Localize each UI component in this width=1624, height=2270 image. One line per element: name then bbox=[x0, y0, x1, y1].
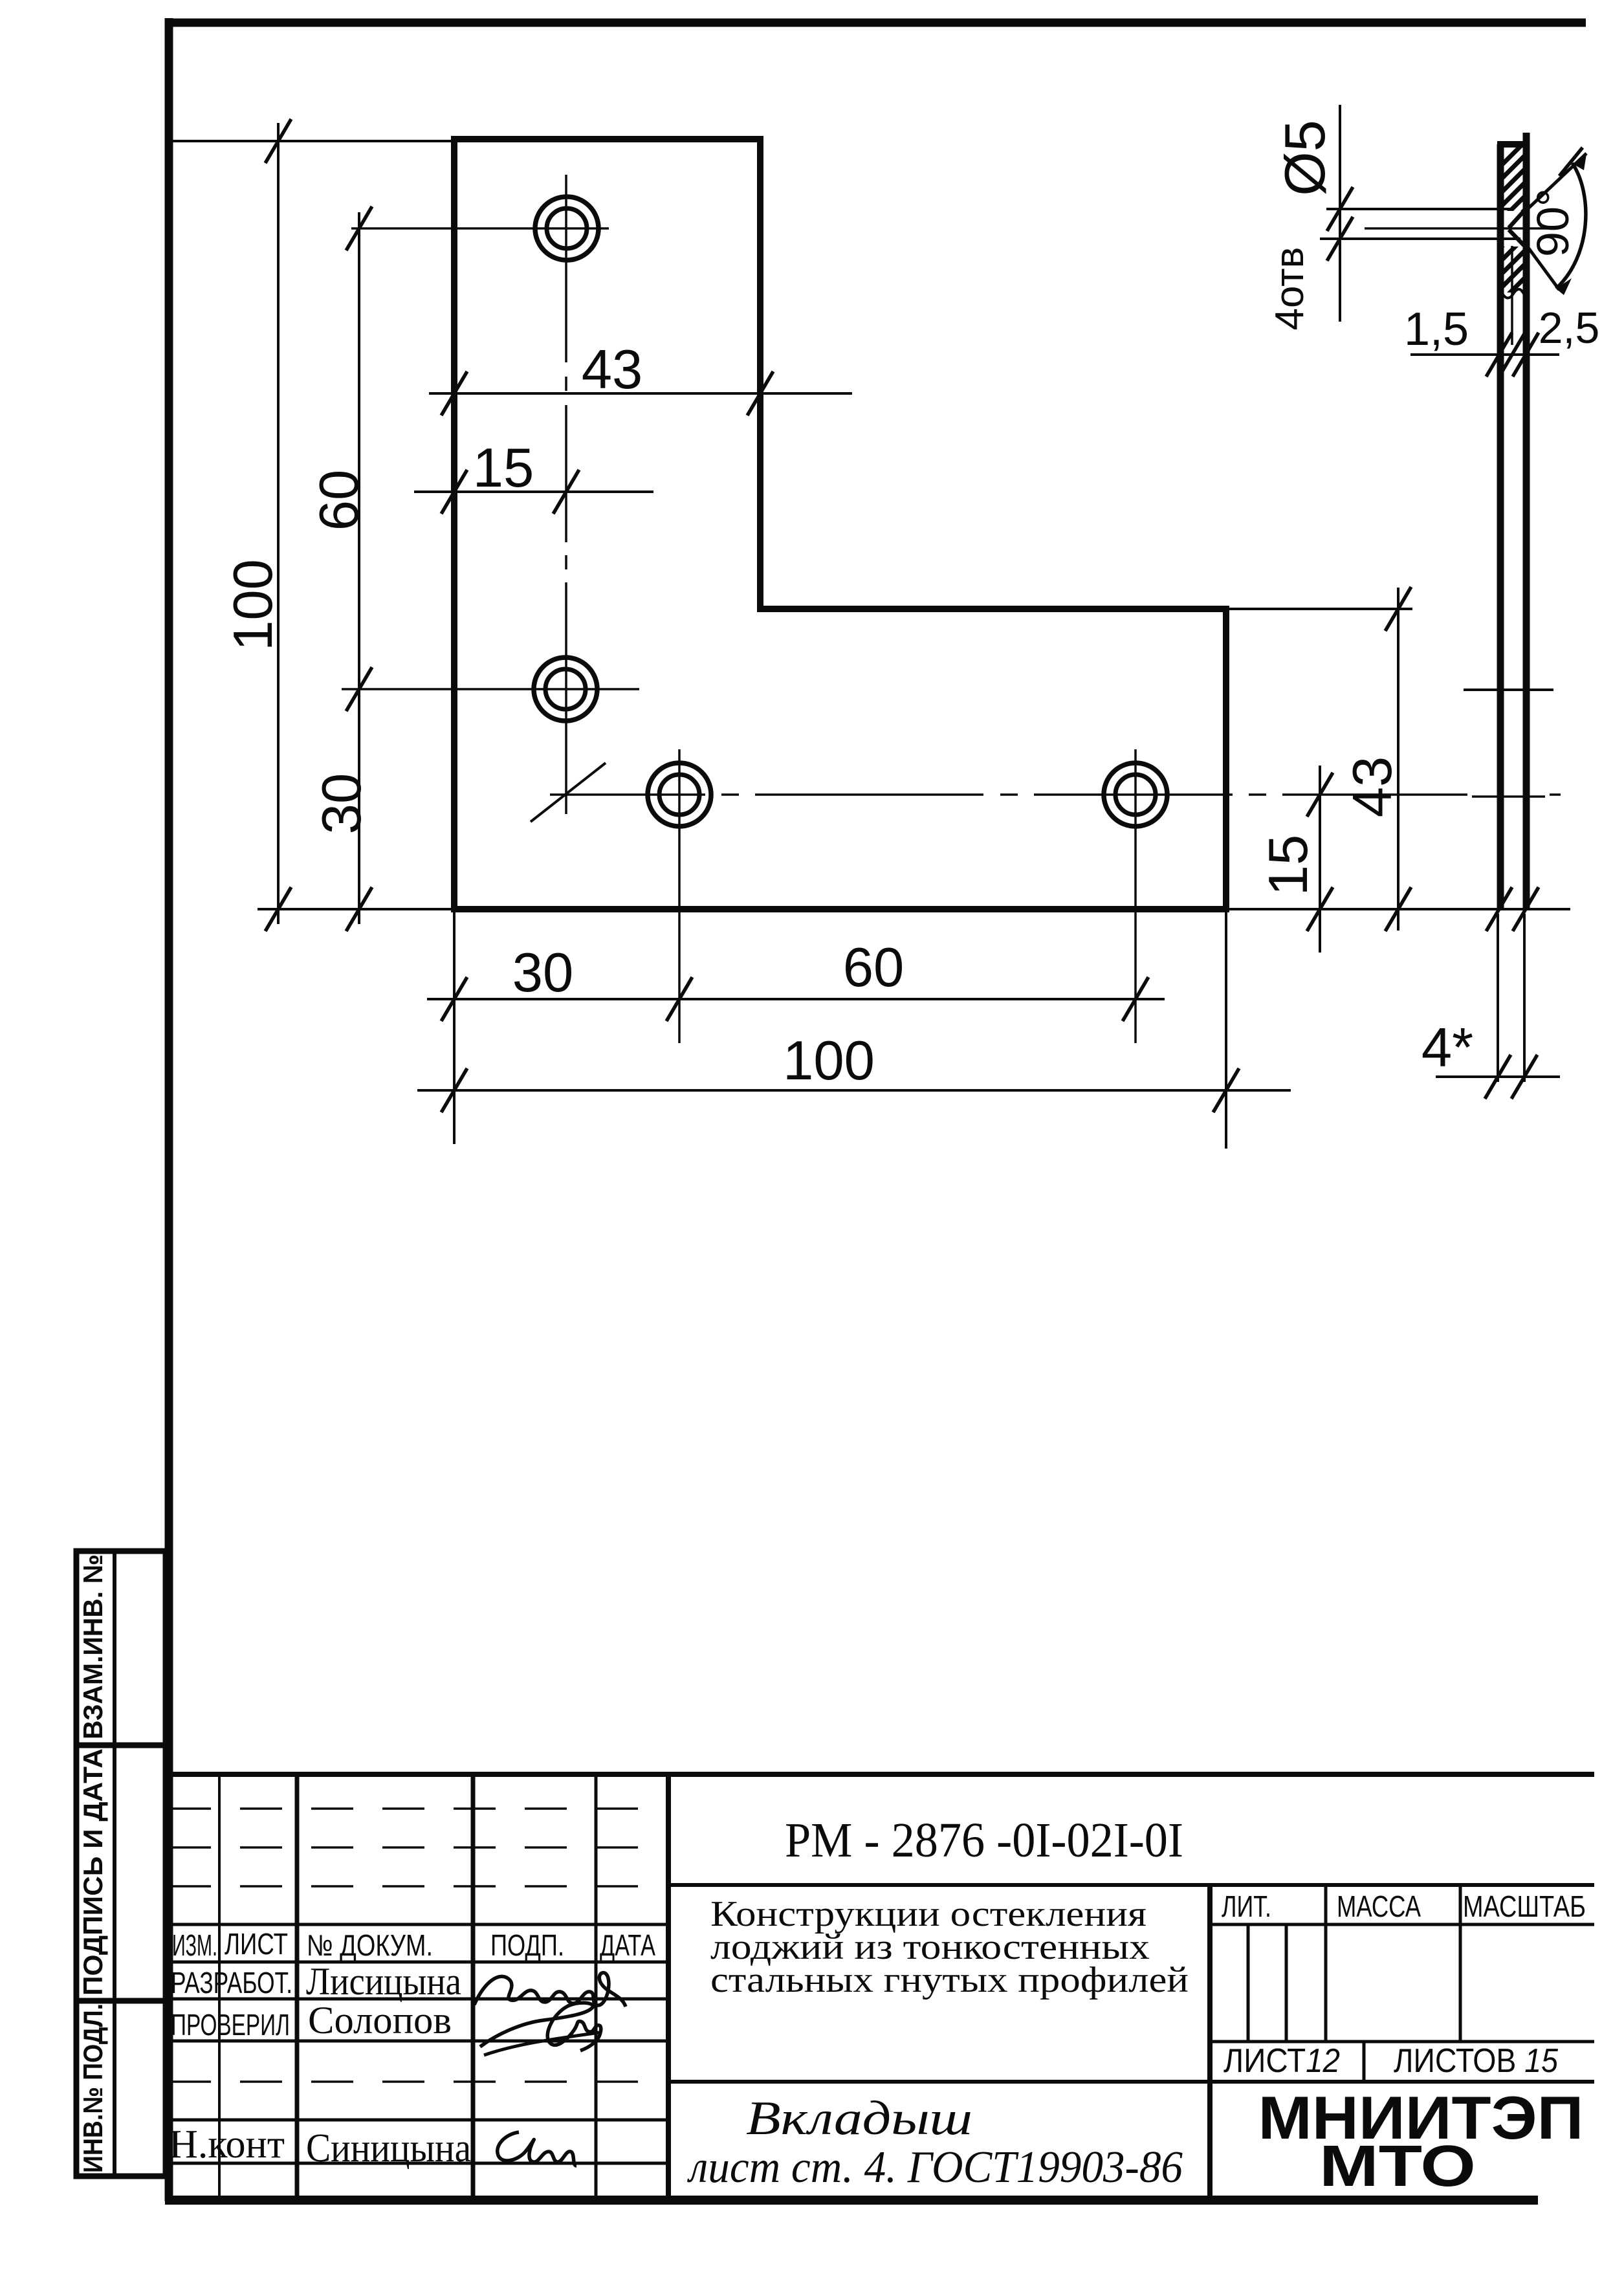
svg-text:МАССА: МАССА bbox=[1337, 1890, 1421, 1923]
strip label divider 1 bbox=[113, 1551, 116, 1745]
dim 90deg: lower leg bbox=[1527, 246, 1559, 290]
extension line bottom edge long right bbox=[1229, 908, 1570, 910]
hole H3 outer bbox=[648, 763, 711, 826]
dim 90deg: upper leg bbox=[1528, 153, 1586, 208]
svg-text:РАЗРАБОТ.: РАЗРАБОТ. bbox=[171, 1966, 292, 2000]
svg-text:43: 43 bbox=[582, 339, 643, 401]
plate outline bbox=[454, 139, 1226, 909]
svg-text:15: 15 bbox=[473, 437, 534, 499]
tb row prover bottom bbox=[169, 2040, 668, 2043]
section inner edge line bbox=[1511, 246, 1513, 345]
dim 30/60 bottom: line bbox=[427, 998, 1165, 1000]
svg-text:лист ст. 4. ГОСТ19903-86: лист ст. 4. ГОСТ19903-86 bbox=[686, 2143, 1183, 2192]
svg-text:ПОДП.: ПОДП. bbox=[490, 1928, 564, 1962]
svg-text:30: 30 bbox=[311, 773, 373, 835]
strip label divider 3 bbox=[113, 2001, 116, 2176]
dim 15 right: line bbox=[1319, 766, 1321, 953]
dim 100 bottom: line bbox=[417, 1089, 1291, 1092]
hole H4 outer bbox=[1104, 763, 1167, 826]
strip cell vzam bbox=[76, 1551, 166, 1745]
hole H4 inner bbox=[1115, 775, 1156, 815]
section hole2 mark line bbox=[1464, 689, 1553, 691]
dim 100 left: line bbox=[277, 123, 280, 924]
svg-text:30: 30 bbox=[512, 942, 574, 1004]
dim 100 left: extension bottom bbox=[258, 908, 453, 910]
dim d5: extension bottom bbox=[1320, 237, 1520, 240]
svg-text:РМ - 2876 -0I-02I-0I: РМ - 2876 -0I-02I-0I bbox=[785, 1813, 1183, 1868]
extension line bottom left corner bbox=[453, 912, 455, 1144]
svg-text:ЛИТ.: ЛИТ. bbox=[1222, 1890, 1271, 1923]
TITLE BLOCK bbox=[165, 1774, 1594, 2200]
section bar right line bbox=[1523, 133, 1530, 909]
svg-text:ИНВ.№ ПОДЛ.: ИНВ.№ ПОДЛ. bbox=[78, 2003, 108, 2173]
svg-text:4*: 4* bbox=[1421, 1017, 1473, 1079]
svg-text:ЛИСТ12: ЛИСТ12 bbox=[1223, 2042, 1340, 2080]
svg-text:43: 43 bbox=[1342, 756, 1403, 818]
svg-text:1,5: 1,5 bbox=[1404, 303, 1469, 355]
svg-text:4отв: 4отв bbox=[1267, 247, 1312, 331]
tb lit subcol 1 bbox=[1247, 1924, 1250, 2042]
strip label divider 2 bbox=[113, 1745, 116, 2001]
dim 4*: extension left bbox=[1497, 914, 1499, 1082]
countersink funnel lower line bbox=[1509, 230, 1527, 248]
signature sin bbox=[498, 2132, 576, 2166]
tb list row bottom bbox=[668, 2080, 1594, 2084]
countersink funnel upper line bbox=[1509, 208, 1527, 228]
tb row header bottom bbox=[169, 1961, 668, 1964]
centerline column holes 1-2 bbox=[565, 175, 567, 814]
strip cell podpis bbox=[76, 1745, 166, 2001]
tb row razrab bottom bbox=[169, 1998, 668, 2001]
svg-text:60: 60 bbox=[309, 470, 370, 531]
dim 1,5 2,5: line bbox=[1410, 353, 1559, 356]
tb col masshtab bbox=[1459, 1885, 1462, 2042]
svg-text:МАСШТАБ: МАСШТАБ bbox=[1463, 1890, 1586, 1923]
centerline hole 2 row bbox=[342, 688, 639, 690]
sheet frame left border bbox=[165, 18, 173, 2201]
svg-text:Солопов: Солопов bbox=[308, 1999, 452, 2042]
dim d5: line bbox=[1339, 105, 1341, 322]
tb row dashed 2 bbox=[169, 1846, 668, 1849]
tb col izm bbox=[218, 1774, 221, 2200]
svg-text:90°: 90° bbox=[1528, 188, 1578, 257]
dimension ticks bbox=[265, 119, 1583, 1112]
centerline holes 3-4 row long bbox=[550, 795, 1561, 797]
hole H2 inner bbox=[545, 669, 586, 709]
svg-text:ИЗМ.: ИЗМ. bbox=[172, 1928, 217, 1962]
extension line bottom right corner bbox=[1225, 912, 1227, 1149]
tb col data bbox=[666, 1774, 671, 2200]
tb col massa bbox=[1324, 1885, 1328, 2042]
hole H2 outer bbox=[534, 657, 597, 721]
svg-text:Вкладыш: Вкладыш bbox=[746, 2092, 972, 2145]
dim 90deg: arrowhead top bbox=[1574, 154, 1586, 170]
tb row nkont bottom bbox=[169, 2162, 668, 2165]
centerline hole 4 vertical bbox=[1134, 749, 1137, 1043]
signature solopov flourish bbox=[484, 2033, 599, 2055]
tb mid/right divider bbox=[1207, 1885, 1213, 2200]
svg-text:2,5: 2,5 bbox=[1539, 303, 1600, 353]
dim 90deg: arc bbox=[1556, 163, 1586, 289]
svg-text:ВЗАМ.ИНВ. №: ВЗАМ.ИНВ. № bbox=[78, 1554, 108, 1739]
hole H3 inner bbox=[659, 775, 699, 815]
dim 4*: line bbox=[1436, 1075, 1560, 1078]
signature solopov bbox=[480, 2003, 601, 2051]
tb lit header bottom bbox=[1210, 1923, 1594, 1926]
tb col dokum bbox=[471, 1774, 476, 2200]
tb col listov bbox=[1363, 2042, 1366, 2082]
tb lit subcol 2 bbox=[1285, 1924, 1288, 2042]
dim 90deg: arrowhead bbox=[1556, 278, 1572, 295]
tb row dashed 4 bbox=[169, 2080, 668, 2083]
svg-text:Ø5: Ø5 bbox=[1273, 120, 1337, 195]
dim 60/30 left: line bbox=[358, 212, 360, 924]
centerline hole 1 row bbox=[351, 227, 609, 230]
svg-text:стальных гнутых профилей: стальных гнутых профилей bbox=[710, 1960, 1189, 2000]
section bar left line bbox=[1497, 144, 1504, 909]
svg-text:100: 100 bbox=[783, 1030, 875, 1092]
dim 43 top: line bbox=[429, 392, 852, 395]
dim 4*: extension right bbox=[1523, 914, 1526, 1082]
tb outer top bbox=[169, 1772, 1594, 1777]
tb row mid top bbox=[668, 1883, 1594, 1887]
dim 43 right: line bbox=[1397, 588, 1399, 931]
svg-text:15: 15 bbox=[1258, 835, 1319, 896]
section break wavy line bbox=[1502, 289, 1524, 298]
strip cell inv bbox=[76, 2001, 166, 2176]
tb row dashed 3 bbox=[169, 1885, 668, 1888]
dim 100 left: extension top bbox=[170, 140, 453, 142]
svg-text:Лисицына: Лисицына bbox=[306, 1960, 461, 2003]
LEFT VERTICAL STRIP bbox=[76, 1551, 166, 2176]
tb col list bbox=[295, 1774, 300, 2200]
section bar top cap bbox=[1497, 141, 1530, 148]
tb bottom thick bbox=[165, 2196, 1538, 2205]
svg-text:ПРОВЕРИЛ: ПРОВЕРИЛ bbox=[171, 2008, 290, 2042]
tb row dashed 1 bbox=[169, 1807, 668, 1810]
svg-text:60: 60 bbox=[843, 937, 905, 998]
svg-text:ДАТА: ДАТА bbox=[600, 1928, 655, 1962]
svg-text:100: 100 bbox=[223, 559, 284, 651]
tb col podp bbox=[595, 1774, 598, 2200]
svg-text:МТО: МТО bbox=[1319, 2134, 1476, 2199]
svg-text:ПОДПИСЬ И ДАТА: ПОДПИСЬ И ДАТА bbox=[78, 1748, 108, 1996]
svg-text:ЛИСТ: ЛИСТ bbox=[225, 1927, 288, 1961]
svg-text:Н.конт: Н.конт bbox=[169, 2122, 285, 2166]
svg-text:ЛИСТОВ 15: ЛИСТОВ 15 bbox=[1394, 2042, 1559, 2080]
dim 43 right: extension top bbox=[1229, 608, 1412, 610]
hole H1 inner bbox=[547, 208, 587, 248]
sheet frame top border bbox=[165, 19, 1586, 27]
diagonal mark at centerline crossing bbox=[531, 763, 606, 822]
dim 15 top: line bbox=[414, 490, 653, 493]
svg-text:№ ДОКУМ.: № ДОКУМ. bbox=[307, 1928, 433, 1962]
tb row 10 bbox=[169, 2119, 668, 2122]
dim d5: extension top bbox=[1326, 208, 1512, 210]
signature lisicyna bbox=[474, 1973, 626, 2007]
tb lit cells bottom bbox=[1210, 2040, 1594, 2044]
centerline hole 3 vertical bbox=[678, 749, 681, 1043]
svg-text:Синицына: Синицына bbox=[306, 2126, 471, 2170]
tb row header top bbox=[169, 1923, 668, 1926]
section hole center line bbox=[1365, 227, 1548, 230]
hole H1 outer bbox=[535, 197, 598, 260]
